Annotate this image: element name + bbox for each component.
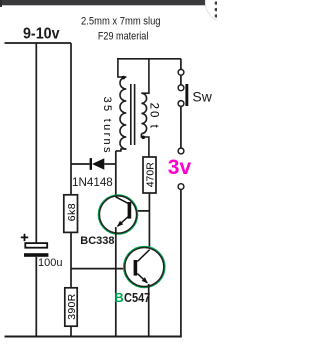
svg-text:1N4148: 1N4148 [72,177,113,189]
ground rail [5,336,182,338]
top-right white circle button [205,0,244,22]
svg-text:470R: 470R [144,162,156,188]
wire: BC338 emitter to ground [115,227,117,337]
wire: second column rail to 6k8 [70,43,72,195]
transformer primary 35 turns [116,59,127,151]
wire: lower terminal to ground rail [180,190,182,337]
transistor BC547 [124,247,165,288]
svg-text:20 t: 20 t [148,103,160,130]
diode 1N4148 [90,158,105,170]
svg-text:C547: C547 [124,290,150,305]
transformer secondary 20t [141,59,149,157]
capacitor 100u [24,243,48,257]
secondary phase dot [142,136,146,140]
switch Sw lever bar [185,84,188,106]
resistor 6k8 [64,195,78,233]
transformer top wire [117,58,181,60]
three-dot menu icon [215,1,218,17]
wire: capacitor to ground rail [35,257,37,337]
primary phase dot [122,76,126,80]
terminal circle 4 [178,148,184,154]
wire: left column from rail to capacitor [35,43,37,242]
svg-text:B: B [114,290,123,305]
wire: switch to output terminal [180,107,182,149]
wire: BC547 base wire [71,268,134,270]
terminal circle 2 [178,85,184,91]
wire: diode anode branch [71,163,90,165]
svg-text:35 turns: 35 turns [101,97,113,155]
terminal circle 3 [178,101,184,107]
9-10v supply rail [5,42,72,44]
top dark bar [0,0,217,7]
svg-text:390R: 390R [66,293,78,319]
transformer core [131,84,135,145]
wire: top line to switch terminal [180,59,182,70]
wire: 390R bottom to ground rail [70,326,72,336]
wire: BC547 emitter to ground [148,284,150,337]
svg-text:Sw: Sw [192,88,212,104]
wire: diode cathode to collector node [104,163,116,165]
svg-text:F29 material: F29 material [98,31,149,43]
transistor BC338 [99,195,138,234]
label BC547 [114,290,150,305]
svg-text:2.5mm x 7mm slug: 2.5mm x 7mm slug [81,15,161,27]
wire: BC338 base to 470R node [131,210,149,212]
wire: between terminals 1 and 2 [180,75,182,85]
svg-text:3v: 3v [168,156,192,179]
svg-text:BC338: BC338 [80,235,114,247]
wire: 470R bottom to BC547 collector [148,193,150,248]
wire: 6k8 bottom to 390R top [70,232,72,287]
resistor 390R [65,288,78,326]
svg-text:6k8: 6k8 [66,203,78,221]
capacitor 100u plus sign [21,234,28,241]
terminal circle 1 [178,69,184,75]
resistor 470R [143,157,156,193]
svg-text:9-10v: 9-10v [23,26,60,43]
svg-text:100u: 100u [38,257,62,269]
wire: collector node down to BC338 [115,151,117,197]
terminal circle 5 [178,184,184,190]
